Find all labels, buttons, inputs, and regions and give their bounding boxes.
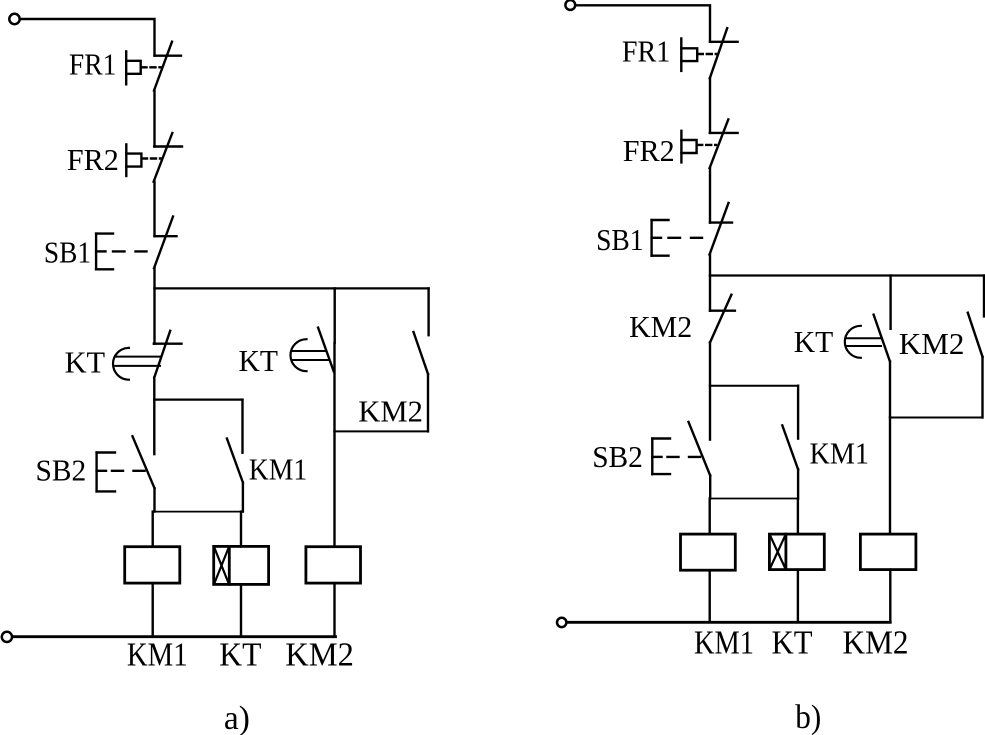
svg-text:FR2: FR2 (623, 133, 675, 168)
svg-text:KM2: KM2 (285, 637, 354, 674)
svg-text:SB1: SB1 (596, 222, 644, 257)
wire node C' to coil KM1 b (709, 499, 711, 535)
thermal relay contact FR2 (NC) b (681, 119, 737, 168)
coil KM1 (125, 547, 180, 583)
wire KT branch to coil KM2 (333, 343, 335, 547)
wire coil KM1 to bottom bus (151, 583, 153, 637)
svg-text:KM2: KM2 (629, 309, 692, 344)
svg-text:KT: KT (65, 344, 106, 379)
svg-text:KM2: KM2 (899, 326, 965, 361)
contactor contact KM1 (NO self-hold) b (782, 386, 798, 499)
wire KM2 NC to node B' b (709, 343, 711, 386)
time relay contact KT (NO, delayed closing) right branch (291, 288, 335, 371)
svg-text:b): b) (795, 699, 821, 735)
coil KT (time relay, delay mark X) (214, 546, 269, 584)
svg-text:KM1: KM1 (694, 625, 754, 662)
node D bus (KT / KM2 parallel bottom) (335, 430, 429, 432)
thermal relay contact FR2 (NC) (126, 133, 182, 182)
wire KT NC to node B (153, 378, 155, 400)
wire node C' to coil KT b (797, 499, 799, 535)
svg-text:FR1: FR1 (69, 47, 117, 82)
wire node C to coil KM1 (151, 512, 153, 547)
wire SB2 to node C (153, 488, 155, 511)
bottom rail bus b) (568, 621, 891, 624)
svg-text:SB2: SB2 (592, 439, 643, 474)
node B' branch (SB2 / KM1 parallel top) b (710, 385, 798, 387)
svg-text:KT: KT (219, 637, 261, 674)
wire node A down to KT NC (153, 288, 155, 343)
wire coil KM1 to bottom bus b (709, 570, 711, 622)
svg-text:KM2: KM2 (358, 394, 423, 429)
wire KT branch to coil KM2 b (889, 361, 891, 534)
wire node A' down to KM2 NC b (709, 276, 711, 311)
start button SB2 (NO) b (652, 422, 710, 476)
contactor contact KM2 (NO) right branch (414, 288, 429, 431)
svg-text:a): a) (224, 700, 250, 735)
svg-text:KT: KT (239, 343, 279, 378)
svg-text:SB2: SB2 (36, 453, 87, 488)
stop button SB1 (NC) (96, 217, 176, 270)
bottom rail bus a) (13, 635, 335, 638)
node C' bus (SB2 / KM1 parallel bottom) b (710, 498, 798, 500)
svg-text:KM1: KM1 (249, 452, 308, 487)
terminal (bottom-left return) (2, 632, 12, 642)
terminal (top-left supply) (9, 14, 19, 24)
wire node B' to SB2 b (709, 386, 711, 440)
time relay contact KT (NO, delayed) right branch b (845, 276, 891, 362)
wire SB1 to node A (153, 268, 155, 288)
node A bus (junction after SB1) (155, 287, 429, 289)
node B branch (SB2 / KM1 parallel top) (154, 399, 242, 401)
terminal (top supply b) (565, 0, 575, 10)
thermal relay contact FR1 (NC) b (681, 28, 737, 78)
contactor contact KM2 (NO) right branch b (968, 276, 984, 418)
terminal (bottom return) b (557, 618, 566, 627)
stop button SB1 (NC) b (652, 203, 732, 256)
wire FR1 to FR2 (153, 91, 155, 147)
contactor contact KM1 (NO self-hold) (227, 400, 243, 512)
node D' bus (KT / KM2 parallel bottom) b (890, 417, 983, 419)
node C bus (SB2 / KM1 parallel bottom) (154, 511, 243, 513)
coil KM1 b (681, 534, 736, 570)
wire coil KM2 to bottom bus b (889, 570, 891, 623)
wire coil KT to bottom bus b (797, 570, 799, 623)
node A' bus (junction after SB1) b (710, 274, 984, 276)
start button SB2 (NO) (97, 436, 155, 491)
svg-text:FR2: FR2 (67, 142, 119, 177)
wire coil KM2 to bottom bus (333, 583, 335, 637)
svg-text:KT: KT (794, 324, 834, 359)
wire FR1 to FR2 b (709, 78, 711, 133)
svg-text:FR1: FR1 (622, 34, 670, 69)
thermal relay contact FR1 (NC) (126, 42, 181, 91)
wire SB1 to node A' b (709, 255, 711, 276)
contactor contact KM2 (NC interlock) b (710, 295, 735, 343)
svg-text:KT: KT (772, 625, 813, 662)
wire FR2 to SB1 (153, 182, 155, 237)
coil KT (time relay, delay mark X) b (769, 534, 824, 570)
wire top rail b (576, 5, 710, 42)
wire coil KT to bottom bus (240, 584, 242, 636)
wire SB2 to node C' b (709, 476, 711, 499)
wire top rail to FR1 (21, 19, 155, 56)
coil KM2 (306, 547, 361, 583)
wire node B to SB2 (153, 400, 155, 455)
coil KM2 b (860, 534, 916, 570)
wire node C to coil KT (240, 512, 242, 547)
svg-text:KM1: KM1 (127, 637, 188, 674)
time relay contact KT (NC, delayed) (113, 331, 182, 380)
svg-text:KM2: KM2 (843, 625, 909, 662)
svg-text:KM1: KM1 (810, 436, 870, 471)
wire FR2 to SB1 b (709, 168, 711, 223)
svg-text:SB1: SB1 (44, 234, 91, 269)
